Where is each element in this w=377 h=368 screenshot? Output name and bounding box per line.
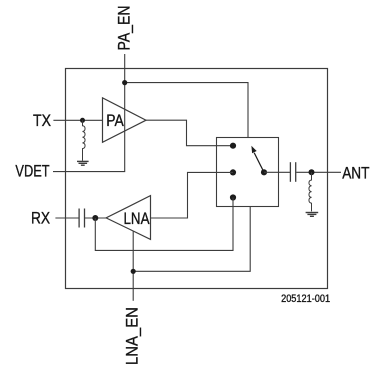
wire LNA_EN lead: [132, 231, 134, 301]
svg-text:VDET: VDET: [15, 162, 49, 181]
capacitor C2 (ANT coupling): [290, 162, 295, 182]
wire RX node to switch pole 3: [95, 198, 233, 251]
wire PA_EN lead: [124, 54, 126, 83]
svg-text:PA_EN: PA_EN: [114, 6, 133, 51]
junction dot ANT node: [309, 169, 315, 175]
svg-text:PA: PA: [106, 111, 124, 130]
inductor L2 (ANT shunt): [309, 172, 312, 211]
wire PA output to switch pole 1: [146, 120, 233, 146]
wire LNA_EN to switch bottom: [133, 206, 250, 271]
inductor L1 (TX shunt): [83, 120, 86, 160]
svg-text:TX: TX: [33, 111, 51, 130]
op-amp PA (triangle): [103, 98, 147, 143]
switch common dot: [261, 169, 267, 175]
wire switch common to C2: [264, 171, 290, 173]
junction dot RX node: [92, 215, 98, 221]
wire switch pole 2 to LNA input: [151, 172, 234, 218]
switch box: [217, 138, 279, 207]
capacitor C1 (RX coupling): [79, 209, 84, 228]
op-amp LNA (triangle, pointing left): [106, 196, 150, 240]
wire PA_EN to switch top: [125, 83, 248, 138]
junction dot LNA_EN node: [131, 269, 136, 274]
junction dot TX node: [80, 118, 85, 123]
wire C1 to LNA output: [85, 217, 106, 219]
switch pole dot 2 (middle): [230, 169, 236, 175]
svg-text:LNA_EN: LNA_EN: [123, 307, 142, 365]
switch arm arrowhead: [251, 146, 256, 153]
wire PA enable / VDET vertical through PA: [53, 83, 125, 172]
svg-text:LNA: LNA: [124, 209, 151, 228]
junction dot PA_EN node: [122, 80, 127, 85]
ground (TX inductor): [77, 161, 89, 165]
wire C2 to ANT: [296, 171, 341, 173]
svg-text:RX: RX: [31, 209, 50, 228]
ground (ANT inductor): [306, 213, 319, 217]
switch arm: [254, 153, 264, 173]
switch pole dot 3 (bottom): [230, 194, 236, 200]
wire RX input: [55, 217, 78, 219]
svg-text:205121-001: 205121-001: [281, 293, 330, 305]
outer box (IC boundary): [66, 69, 328, 289]
svg-text:ANT: ANT: [342, 164, 369, 183]
switch pole dot 1 (top): [230, 143, 236, 149]
wire TX input: [53, 119, 102, 121]
